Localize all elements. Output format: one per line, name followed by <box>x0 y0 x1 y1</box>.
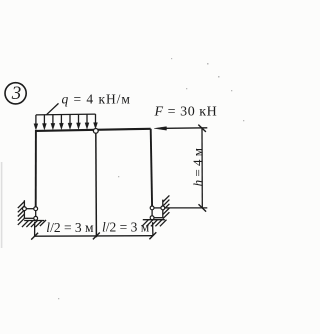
svg-text:h = 4 м: h = 4 м <box>190 148 205 186</box>
svg-text:q = 4 кН/м: q = 4 кН/м <box>62 91 131 106</box>
svg-text:3: 3 <box>11 83 21 104</box>
svg-text:l/2 = 3 м: l/2 = 3 м <box>46 220 94 235</box>
svg-text:F = 30 кН: F = 30 кН <box>154 105 218 120</box>
svg-text:l/2 = 3 м: l/2 = 3 м <box>102 220 150 235</box>
